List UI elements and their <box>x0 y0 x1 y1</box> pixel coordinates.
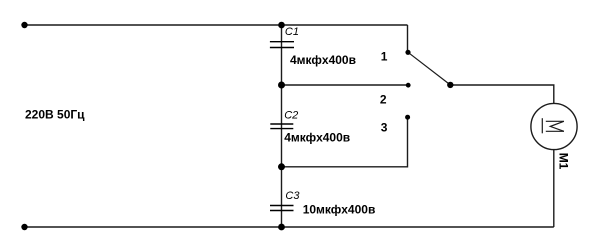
svg-text:220В 50Гц: 220В 50Гц <box>25 107 85 121</box>
switch contact 2 <box>406 83 411 88</box>
node C1-C2 junction <box>278 82 285 89</box>
svg-text:3: 3 <box>381 120 388 134</box>
node bottom of C3 <box>278 224 285 231</box>
capacitor C3 plates <box>270 206 294 211</box>
svg-text:4мкфх400в: 4мкфх400в <box>284 131 350 145</box>
node top of C1 <box>278 22 285 29</box>
switch contact 1 <box>405 50 410 55</box>
capacitor C2 plates <box>270 124 293 129</box>
svg-text:1: 1 <box>381 50 388 64</box>
switch pole <box>447 82 453 88</box>
svg-text:2: 2 <box>380 93 387 107</box>
switch contact 3 <box>405 115 410 120</box>
svg-text:4мкфх400в: 4мкфх400в <box>290 53 356 67</box>
capacitor C1 plates <box>270 42 294 48</box>
wire bottom horizontal <box>25 226 554 228</box>
motor M letter rotated with underline <box>542 118 564 133</box>
wire node C2-C3 to contact 3 <box>282 117 408 167</box>
wire switch drop to contact 1 <box>407 25 409 52</box>
svg-text:10мкфх400в: 10мкфх400в <box>303 202 376 216</box>
svg-text:C2: C2 <box>284 109 298 121</box>
motor M1 circle <box>531 103 577 149</box>
wire node C1-C2 to contact 2 <box>282 84 407 86</box>
wire top horizontal <box>25 24 408 26</box>
svg-text:C3: C3 <box>285 190 300 202</box>
wire capacitor chain vertical <box>281 25 283 227</box>
node C2-C3 junction <box>278 163 285 170</box>
node left bottom terminal <box>21 224 27 230</box>
switch SA blade <box>408 52 450 85</box>
wire motor to bottom <box>553 150 555 227</box>
wire pole to motor <box>450 85 554 103</box>
svg-text:C1: C1 <box>285 26 299 38</box>
node left top terminal <box>21 22 27 28</box>
svg-text:M1: M1 <box>556 153 570 170</box>
